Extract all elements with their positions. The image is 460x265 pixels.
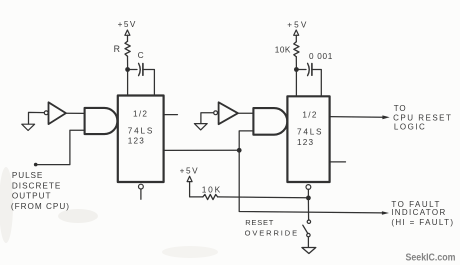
wire AND G2 lower input from node 2 — [239, 131, 253, 148]
IC U1 bottom clear pin circle — [139, 184, 144, 189]
+5V supply 2 arrow terminal — [294, 30, 299, 35]
svg-text:123: 123 — [297, 138, 314, 147]
svg-text:123: 123 — [128, 137, 145, 146]
svg-text:CPU RESET: CPU RESET — [393, 114, 452, 123]
junction node dot 2 — [237, 148, 242, 153]
AND gate G1 — [85, 108, 118, 134]
junction node dot 1 — [125, 67, 130, 72]
junction node dot 2t — [294, 67, 299, 72]
label 0.001 — [309, 52, 333, 61]
wire resistor to node 2t — [295, 57, 297, 68]
svg-text:74LS: 74LS — [128, 127, 154, 136]
wire node 3 down to switch — [307, 200, 309, 220]
IC U1 right pin stub — [164, 114, 178, 116]
svg-text:OUTPUT: OUTPUT — [12, 192, 52, 201]
capacitor 0.001 straight plate — [311, 64, 313, 76]
label TO CPU RESET LOGIC — [393, 104, 452, 131]
AND gate G2 — [253, 108, 287, 135]
IC U2 bottom pin stub to node 3 — [307, 190, 309, 196]
label U2 1/2 — [297, 110, 323, 147]
IC U2 right pin stub — [330, 161, 346, 163]
wire node to capacitor 0.001 — [299, 69, 306, 71]
label R — [114, 44, 120, 54]
switch S1 bottom terminal — [307, 233, 310, 236]
wire arrow to resistor R — [127, 35, 129, 41]
scan smudge bottom left — [58, 209, 98, 223]
wire node 2t down to IC U2 top — [295, 72, 297, 97]
wire AND G1 lower input — [36, 130, 85, 164]
capacitor C straight plate — [142, 64, 144, 76]
inverter A2 input bubble — [214, 111, 218, 115]
ground 1 — [22, 124, 35, 130]
svg-text:+5V: +5V — [118, 20, 137, 29]
node dot pulse input — [34, 163, 38, 167]
svg-text:(FROM CPU): (FROM CPU) — [11, 202, 70, 211]
label PULSE DISCRETE OUTPUT (FROM CPU) — [11, 171, 70, 211]
wire ground 2 to inverter A2 input bubble — [201, 113, 214, 124]
ground 3 — [302, 248, 316, 254]
label 10K horizontal — [202, 184, 222, 194]
+5V supply 1 label — [118, 20, 137, 29]
+5V supply 3 label — [180, 167, 200, 176]
junction node dot 3 — [306, 196, 311, 201]
fault arrowhead — [382, 211, 389, 215]
wire switch to ground 3 — [307, 237, 309, 247]
svg-text:+5V: +5V — [180, 167, 200, 176]
resistor 10K vertical — [294, 42, 299, 57]
svg-text:1/2: 1/2 — [302, 110, 317, 119]
wire inverter A2 to AND gate G2 — [238, 112, 254, 114]
inverter A1 triangle — [49, 102, 66, 124]
inverter A1 input bubble — [44, 111, 48, 115]
wire node to capacitor C — [130, 69, 137, 71]
IC U2 bottom clear pin circle — [306, 185, 311, 190]
+5V supply 3 arrow terminal — [187, 176, 192, 181]
resistor 10K horizontal — [203, 194, 218, 199]
wire node 1 down to IC U1 top — [127, 72, 129, 96]
wire capacitor to IC U2 top — [312, 70, 321, 97]
label TO FAULT INDICATOR (HI = FAULT) — [391, 200, 454, 227]
svg-text:TO: TO — [394, 104, 407, 113]
svg-text:(HI = FAULT): (HI = FAULT) — [391, 218, 454, 227]
IC U1 box 1/2 74LS123 — [118, 96, 164, 183]
label RESET OVERRIDE — [245, 218, 299, 237]
wire ground 1 to inverter A1 input bubble — [29, 112, 45, 124]
capacitor C curved plate — [139, 63, 141, 75]
IC U2 box 1/2 74LS123 — [287, 96, 329, 182]
svg-text:INDICATOR: INDICATOR — [391, 208, 446, 217]
wire arrow down and to resistor 10K horizontal — [190, 182, 203, 197]
svg-text:1/2: 1/2 — [133, 110, 148, 119]
svg-text:PULSE: PULSE — [12, 171, 43, 180]
IC U1 bottom pin stub — [140, 189, 142, 199]
resistor R — [125, 41, 130, 56]
svg-text:OVERRIDE: OVERRIDE — [245, 228, 299, 237]
+5V supply 2 label — [287, 20, 308, 29]
switch S1 blade — [303, 225, 308, 233]
label U1 1/2 — [128, 110, 154, 146]
wire inverter A1 to AND gate G1 — [66, 112, 85, 114]
svg-text:SeekIC.com: SeekIC.com — [406, 252, 456, 263]
svg-text:C: C — [138, 50, 144, 60]
inverter A2 triangle — [219, 102, 238, 124]
capacitor 0.001 curved plate — [308, 63, 310, 75]
wire resistor to node 3 — [218, 196, 307, 199]
watermark SeekIC.com — [406, 252, 456, 263]
wire arrow to resistor 10K — [295, 35, 297, 42]
scan smudge left edge — [0, 167, 13, 243]
CPU reset arrowhead — [382, 115, 389, 119]
switch S1 top terminal — [307, 220, 310, 223]
scan smudge bottom center — [162, 246, 218, 258]
wire IC U2 Q output to CPU reset arrow — [330, 116, 383, 119]
label 10K — [275, 46, 291, 55]
svg-text:0 001: 0 001 — [309, 52, 333, 61]
label C — [138, 50, 144, 60]
svg-text:+5V: +5V — [287, 20, 308, 29]
ground 2 — [194, 124, 207, 130]
+5V supply 1 arrow terminal — [125, 30, 130, 35]
svg-text:74LS: 74LS — [297, 128, 323, 137]
wire capacitor to IC U1 top — [143, 70, 155, 96]
svg-text:DISCRETE: DISCRETE — [12, 181, 61, 190]
svg-text:LOGIC: LOGIC — [394, 122, 426, 131]
wire resistor to node — [127, 56, 129, 67]
wire node 2 down and right to fault arrow — [239, 152, 382, 213]
svg-text:10K: 10K — [275, 46, 291, 55]
svg-text:10K: 10K — [202, 184, 222, 194]
svg-text:RESET: RESET — [245, 218, 274, 227]
svg-text:R: R — [114, 44, 120, 54]
wire IC U1 Q output to node 2 — [164, 149, 237, 151]
